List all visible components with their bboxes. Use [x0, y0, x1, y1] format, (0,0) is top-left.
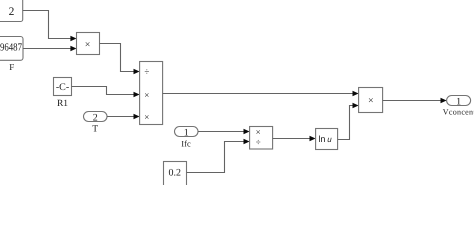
- wire from product P4 to outport: [383, 100, 441, 102]
- arrowhead into outport: [441, 98, 447, 104]
- wire from constant F to product P1 input 2: [23, 48, 71, 50]
- svg-text:-96487: -96487: [0, 41, 22, 53]
- product block P4 (final multiply): [359, 88, 383, 113]
- svg-text:0.2: 0.2: [169, 167, 182, 178]
- arrowhead into divide P2 input 2: [134, 92, 140, 98]
- constant block 0.2: [164, 162, 187, 188]
- svg-text:lnu: lnu: [318, 134, 332, 144]
- arrowhead into divide P2 input 1: [134, 69, 140, 75]
- wire from inport T to divide P2 input 3: [107, 116, 134, 118]
- constant block -C- (R1): [54, 78, 72, 110]
- svg-text:T: T: [92, 125, 98, 135]
- wire from constant 2 to product P1 input 1: [23, 11, 71, 39]
- arrowhead into product P1 input 2: [70, 46, 76, 52]
- arrowhead into ln block: [310, 136, 316, 142]
- constant block 96487 (F): [0, 37, 23, 73]
- wire from divide P2 to product P4 input 1: [163, 93, 353, 95]
- divide block P3 (Ifc/0.2): [250, 127, 273, 150]
- svg-text:1: 1: [184, 127, 189, 138]
- wire from ln block to product P4 input 2: [338, 106, 353, 140]
- arrowhead into divide P3 input 1: [244, 129, 250, 135]
- constant block 2 (z): [0, 0, 23, 22]
- wire from constant 0.2 to divide P3 input 2: [187, 142, 244, 173]
- svg-text:×: ×: [85, 39, 91, 50]
- svg-text:-C-: -C-: [56, 82, 69, 93]
- arrowhead into divide P3 input 2: [244, 139, 250, 145]
- svg-text:2: 2: [93, 112, 98, 123]
- inport 1 (Ifc): [175, 127, 199, 149]
- svg-text:×: ×: [256, 127, 261, 137]
- svg-text:×: ×: [144, 112, 149, 122]
- arrowhead into product P1 input 1: [70, 36, 76, 42]
- arrowhead into divide P2 input 3: [134, 114, 140, 120]
- wire from product P1 to divide P2 input 1: [100, 44, 134, 72]
- svg-text:Ifc: Ifc: [181, 138, 191, 148]
- wire from constant R1 to divide P2 input 2: [72, 87, 134, 95]
- wire from inport Ifc to divide P3 input 1: [198, 131, 244, 133]
- svg-text:2: 2: [9, 6, 15, 18]
- svg-text:×: ×: [368, 95, 374, 106]
- math function block ln u: [316, 129, 338, 150]
- svg-text:×: ×: [144, 90, 149, 100]
- inport 2 (T): [84, 112, 108, 135]
- arrowhead into product P4 input 2: [353, 103, 359, 109]
- svg-text:1: 1: [456, 96, 461, 107]
- outport 1 (Vconcentration): [443, 96, 474, 117]
- arrowhead into product P4 input 1: [353, 91, 359, 97]
- svg-text:F: F: [9, 62, 14, 72]
- svg-text:Vconcentration: Vconcentration: [443, 108, 474, 117]
- divide block P2 (R1*T/(2F)): [140, 62, 163, 125]
- svg-text:÷: ÷: [144, 66, 149, 76]
- svg-text:R1: R1: [57, 99, 68, 109]
- product block P1 (2*F): [77, 33, 100, 55]
- svg-text:÷: ÷: [256, 137, 261, 147]
- wire from divide P3 to ln block: [273, 138, 310, 140]
